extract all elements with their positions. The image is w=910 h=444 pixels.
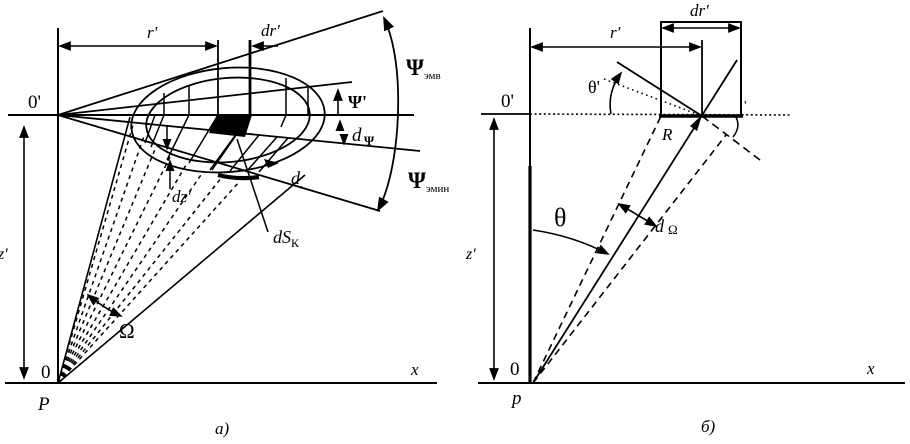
dashed ray 8	[58, 181, 240, 383]
tick dr' bold	[249, 40, 252, 115]
fan line upper steep	[58, 11, 383, 115]
svg-text:Ψэмин: Ψэмин	[408, 168, 449, 195]
dotted slant line	[604, 79, 702, 116]
dr' dimension	[663, 27, 739, 29]
dpsi arrows	[339, 121, 341, 131]
dOmega arc	[619, 204, 656, 226]
svg-text:P: P	[37, 394, 50, 415]
dz' arrows	[166, 126, 168, 149]
meridian 148 tail	[145, 115, 155, 143]
small angle arc at R	[733, 117, 738, 137]
r' dimension	[532, 46, 700, 48]
svg-text:r': r'	[610, 23, 621, 42]
Omega arc	[88, 295, 121, 316]
svg-text:p: p	[510, 388, 522, 409]
meridian 251 tail	[212, 115, 250, 170]
meridian 164	[151, 93, 164, 147]
svg-text:Ω: Ω	[119, 319, 135, 343]
arrow on band	[264, 159, 279, 168]
fan line psi-prime	[58, 82, 352, 115]
tick r'	[217, 40, 219, 115]
horizontal stub left of axis	[481, 113, 530, 115]
svg-text:r': r'	[147, 23, 158, 42]
r' dimension	[60, 45, 216, 47]
hatch 4	[259, 138, 288, 172]
meridian 189	[167, 86, 189, 160]
axis vertical thin top	[529, 28, 531, 167]
psi-prime arrow	[337, 90, 339, 115]
svg-text:dr': dr'	[261, 21, 280, 40]
dashed ray 6	[58, 172, 203, 383]
axis vertical thick bottom	[528, 166, 531, 383]
axis bottom x	[5, 382, 437, 384]
hatch 2	[230, 135, 259, 171]
svg-text:x: x	[410, 360, 419, 379]
svg-text:d: d	[655, 216, 665, 236]
tangent line solid	[617, 62, 702, 116]
outer ellipse	[127, 60, 329, 181]
z' dimension arrow	[23, 127, 25, 378]
meridian 218 tail	[189, 115, 218, 163]
tangent line dashed continuation	[702, 116, 760, 160]
meridian 286	[281, 78, 286, 127]
dashed ray right to rect corner	[533, 135, 726, 383]
main ray P through R	[533, 60, 737, 383]
svg-text:0: 0	[41, 362, 51, 383]
svg-text:θ': θ'	[588, 77, 600, 97]
fan line lowest	[58, 115, 380, 211]
svg-text:': '	[744, 99, 747, 114]
axis bottom x	[478, 382, 905, 384]
rectangle ring cross-section	[661, 22, 741, 116]
meridian 308	[307, 88, 309, 115]
svg-text:Ψ: Ψ	[364, 133, 375, 148]
svg-text:Ω: Ω	[668, 222, 678, 237]
dS_K leader	[237, 139, 268, 232]
cone left boundary	[58, 117, 130, 383]
dashed ray 5	[58, 165, 186, 383]
bold bottom arc of ring	[218, 175, 259, 178]
svg-text:Ψэмв: Ψэмв	[406, 55, 441, 82]
arrowhead at R	[690, 115, 702, 131]
svg-text:б): б)	[701, 417, 716, 436]
dr' dimension	[253, 45, 278, 47]
z' dimension arrow	[493, 119, 495, 379]
dashed ray 2	[58, 136, 144, 383]
hatch 3	[246, 137, 277, 172]
axis vertical z' left	[57, 28, 59, 383]
dashed ray left to rect corner	[533, 116, 661, 383]
dashed ray 3	[58, 147, 156, 383]
dashed ray 7	[58, 177, 222, 383]
rectangle bottom bold	[659, 114, 743, 117]
theta arc	[533, 230, 608, 254]
black cell dS	[209, 115, 252, 137]
big angle arc right	[378, 18, 398, 210]
dashed ray 1	[58, 125, 133, 383]
svg-text:R: R	[661, 125, 673, 144]
svg-text:dSК: dSК	[273, 227, 300, 250]
svg-text:0: 0	[510, 359, 520, 380]
inner ellipse of ring	[143, 71, 314, 169]
hatch 1	[210, 133, 237, 170]
fan line lower dpsi	[58, 115, 420, 151]
svg-text:dr': dr'	[690, 1, 709, 20]
svg-text:Ψ': Ψ'	[348, 92, 367, 112]
dashed ray 4	[58, 157, 170, 383]
svg-text:а): а)	[215, 419, 230, 438]
svg-text:d: d	[352, 125, 362, 146]
cone right boundary	[58, 175, 305, 383]
svg-text:0': 0'	[501, 91, 514, 112]
svg-text:0': 0'	[28, 92, 41, 113]
svg-text:θ: θ	[554, 203, 566, 232]
dotted horizontal line	[530, 114, 790, 115]
svg-text:z': z'	[0, 246, 8, 263]
theta-prime arc	[610, 73, 621, 114]
svg-text:z': z'	[465, 246, 476, 263]
svg-text:x: x	[866, 359, 875, 378]
axis horizontal through 0'	[8, 114, 414, 116]
rect middle vertical	[701, 40, 703, 116]
